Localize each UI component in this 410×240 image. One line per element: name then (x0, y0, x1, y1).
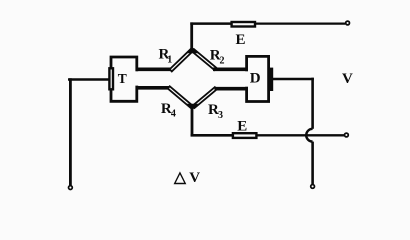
resistor R3 (diagonal) (193, 87, 217, 108)
svg-text:△: △ (173, 169, 187, 186)
node: apex junction of R1/R2 (186, 47, 198, 54)
terminal: bottom-rail right open circle (345, 133, 349, 137)
svg-text:V: V (189, 170, 200, 186)
svg-text:E: E (237, 119, 247, 135)
svg-text:T: T (118, 71, 127, 86)
terminal: bottom-left open circle (69, 186, 73, 190)
resistor R2 (diagonal) (192, 49, 216, 70)
wire: D output right (273, 78, 314, 81)
terminal: bottom-right open circle (311, 185, 315, 189)
resistor R1 (diagonal) (170, 49, 193, 71)
wire: bottom rail left of battery E (191, 134, 233, 137)
wire: top rail left of battery E (190, 22, 231, 25)
wire: R3 to D bottom (215, 87, 249, 91)
node: bottom vertex junction of R4/R3 (186, 104, 198, 111)
svg-text:4: 4 (171, 109, 176, 120)
wire: top rail right of battery to terminal (255, 22, 345, 24)
wire: D output vertical down to hop (311, 78, 314, 129)
svg-text:V: V (342, 71, 353, 87)
wire: left vertical rail down to terminal (69, 78, 72, 185)
transducer T element bar (on left edge of box) (109, 68, 113, 89)
battery E (top) box (232, 22, 255, 27)
wire: R2 to D top (213, 68, 248, 72)
wire hop: arc over bottom rail (306, 129, 312, 142)
svg-text:1: 1 (167, 55, 172, 66)
wire: T top to R1 (136, 68, 173, 72)
wire: left input horizontal from T element to left rail (68, 78, 109, 81)
detector D box outline (left edge gapped between wires) (247, 56, 269, 101)
svg-text:D: D (250, 71, 261, 87)
transducer T box outline (right edge gapped between wires) (111, 57, 137, 101)
wire: bottom rail right of battery through crossing to terminal (256, 134, 344, 136)
battery E (bottom) box (233, 133, 257, 138)
detector D element bar (on right edge of box) (270, 69, 272, 90)
wire: T bottom to R4 (136, 86, 171, 90)
svg-text:2: 2 (220, 56, 225, 67)
wire: apex vertical up to top rail (190, 22, 193, 50)
svg-text:3: 3 (218, 110, 223, 121)
terminal: top-right open circle (346, 21, 350, 25)
svg-text:E: E (236, 32, 246, 48)
resistor R4 (diagonal) (168, 86, 193, 108)
wire: bottom vertex vertical down (191, 106, 194, 136)
wire: vertical below hop to terminal (311, 142, 314, 185)
